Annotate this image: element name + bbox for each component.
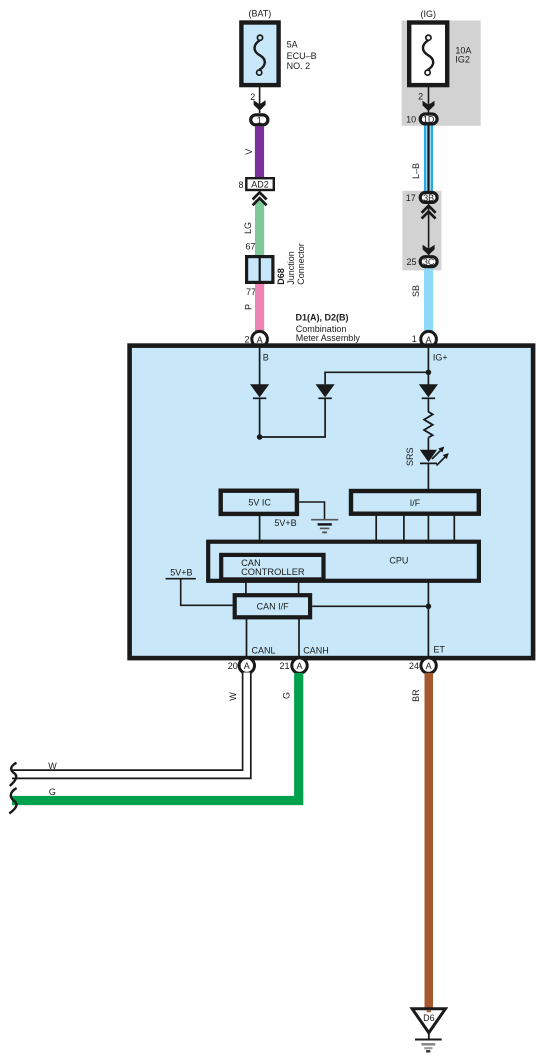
wire fuse to node 1 [259, 87, 261, 113]
wire diode3 to resistor [427, 398, 429, 412]
svg-text:SB: SB [411, 285, 421, 297]
wire 5V IC to CAN controller [259, 516, 261, 554]
node 3C [420, 257, 437, 268]
gray panel (IG circuit) [402, 21, 481, 126]
connector AD2 [246, 178, 273, 190]
wire diode2 to IG+ line [325, 372, 428, 384]
node A (pin 20) [239, 658, 254, 673]
wires I/F to CPU [376, 514, 454, 541]
svg-text:D6: D6 [423, 1013, 435, 1023]
diode D_2 [316, 384, 335, 398]
node 1D [420, 114, 437, 125]
IC CAN CONTROLLER [221, 555, 323, 580]
svg-text:IG+: IG+ [433, 353, 448, 363]
wire fuse to node 1D [428, 87, 430, 113]
diode D_3 [419, 384, 438, 398]
wire W (white with outline) [12, 673, 247, 775]
node 1 [251, 115, 268, 126]
svg-text:25: 25 [406, 257, 416, 267]
wire V (violet) [255, 126, 264, 178]
svg-text:W: W [228, 692, 238, 701]
svg-text:CPU: CPU [389, 556, 408, 566]
IC I/F [351, 491, 479, 514]
wire CANL [246, 617, 248, 658]
svg-text:AD2: AD2 [251, 180, 269, 190]
node 3B [420, 193, 437, 204]
svg-text:A: A [257, 335, 263, 345]
double chevron arrow up [422, 206, 436, 219]
svg-text:24: 24 [409, 661, 419, 671]
svg-text:NO. 2: NO. 2 [287, 61, 311, 71]
wire CANH [298, 617, 300, 658]
wire 5V+B to CAN I/F [181, 579, 233, 606]
svg-text:(BAT): (BAT) [248, 8, 271, 18]
diode D_1 [250, 384, 269, 398]
svg-text:77: 77 [246, 287, 256, 297]
svg-text:5V IC: 5V IC [248, 498, 271, 508]
arrow down [254, 100, 266, 110]
wire B line [259, 347, 261, 385]
label 5V+B (left) with underline [166, 568, 196, 579]
svg-text:D1(A), D2(B): D1(A), D2(B) [296, 313, 349, 323]
wire 5V IC to ground [299, 502, 324, 520]
node A (pin 21) [292, 658, 307, 673]
svg-text:2: 2 [250, 92, 255, 102]
ground D6 [412, 1009, 445, 1052]
continuation squiggle G [9, 788, 16, 813]
svg-text:A: A [296, 661, 302, 671]
svg-text:1: 1 [257, 115, 262, 125]
wires CAN controller to CAN I/F [246, 581, 299, 596]
svg-text:BR: BR [411, 689, 421, 702]
fuse 10A IG2 [409, 23, 447, 86]
svg-text:5A: 5A [287, 39, 298, 49]
double chevron arrow up [255, 200, 264, 255]
IC CAN I/F [235, 595, 310, 617]
IC CPU [208, 542, 479, 581]
wire SB (sky blue) [424, 269, 433, 332]
svg-text:Meter Assembly: Meter Assembly [296, 333, 361, 343]
wire CAN I/F to ET line [312, 605, 428, 607]
node A (pin 2 of D1) [252, 331, 268, 347]
value label 5A ECU-B NO. 2 [287, 39, 317, 71]
svg-text:3C: 3C [423, 257, 435, 267]
junction connector D68 [247, 256, 273, 283]
wire LED to I/F [427, 463, 429, 489]
wire IG+ line [427, 347, 429, 385]
svg-text:ECU–B: ECU–B [287, 51, 317, 61]
wire 3B to 3C [428, 206, 430, 255]
wire ET line [427, 582, 429, 658]
LED SRS [420, 447, 449, 466]
junction dot [257, 434, 263, 440]
svg-text:1D: 1D [423, 115, 435, 125]
resistor R [424, 412, 433, 438]
svg-text:CONTROLLER: CONTROLLER [241, 567, 305, 577]
value label 10A IG2 [455, 46, 471, 65]
svg-text:17: 17 [406, 193, 416, 203]
node A (pin 1 of D1) [421, 331, 437, 347]
node A (pin 24) [421, 658, 436, 673]
svg-text:A: A [426, 335, 432, 345]
svg-text:ET: ET [433, 645, 445, 655]
svg-text:LG: LG [243, 222, 253, 234]
svg-text:67: 67 [245, 241, 255, 251]
svg-text:G: G [49, 787, 56, 797]
svg-text:3B: 3B [423, 193, 434, 203]
double chevron arrow up (AD2) [253, 192, 267, 205]
wire P (pink) [255, 284, 264, 332]
svg-text:I/F: I/F [410, 498, 421, 508]
junction dot on IG+ [426, 370, 432, 376]
wire G (green) [12, 673, 299, 801]
continuation squiggle W [10, 763, 17, 786]
svg-text:A: A [426, 661, 432, 671]
svg-text:CANL: CANL [252, 646, 276, 656]
wire BR (brown) [425, 673, 434, 1009]
svg-text:Connector: Connector [296, 243, 306, 285]
svg-text:5V+B: 5V+B [274, 518, 296, 528]
wire junction to diode2 [260, 398, 326, 437]
svg-text:20: 20 [228, 661, 238, 671]
wire L-B (blue/black) [424, 126, 433, 192]
junction dot on ET line [426, 604, 432, 610]
label D1(A), D2(B) Combination Meter Assembly [296, 313, 361, 344]
fuse 5A ECU-B NO.2 [241, 23, 278, 86]
svg-text:IG2: IG2 [455, 55, 470, 65]
svg-text:1: 1 [412, 334, 417, 344]
ground (internal) [311, 520, 338, 533]
arrow down [423, 245, 435, 255]
svg-text:B: B [263, 353, 269, 363]
label D68 Junction Connector [276, 243, 306, 285]
IC 5V IC [221, 491, 297, 514]
svg-text:D68: D68 [276, 268, 286, 285]
svg-text:A: A [244, 661, 250, 671]
svg-text:G: G [281, 692, 291, 699]
svg-text:CANH: CANH [303, 646, 329, 656]
svg-text:10: 10 [406, 114, 416, 124]
svg-text:L–B: L–B [411, 163, 421, 179]
svg-text:SRS: SRS [405, 447, 415, 466]
gray panel (3B-3C connector) [402, 191, 441, 271]
svg-text:2: 2 [418, 91, 423, 101]
svg-text:W: W [48, 761, 57, 771]
svg-text:5V+B: 5V+B [170, 568, 192, 578]
svg-text:Junction: Junction [286, 251, 296, 285]
svg-text:21: 21 [279, 661, 289, 671]
svg-text:V: V [244, 149, 254, 155]
svg-text:(IG): (IG) [421, 9, 437, 19]
arrow down [423, 101, 435, 111]
wire resistor to LED [427, 438, 429, 451]
svg-text:P: P [244, 304, 254, 310]
wire diode1 to junction [259, 398, 261, 437]
svg-text:CAN I/F: CAN I/F [257, 602, 290, 612]
svg-text:2: 2 [244, 334, 249, 344]
svg-text:8: 8 [238, 180, 243, 190]
combination meter assembly box D1 [130, 346, 533, 658]
